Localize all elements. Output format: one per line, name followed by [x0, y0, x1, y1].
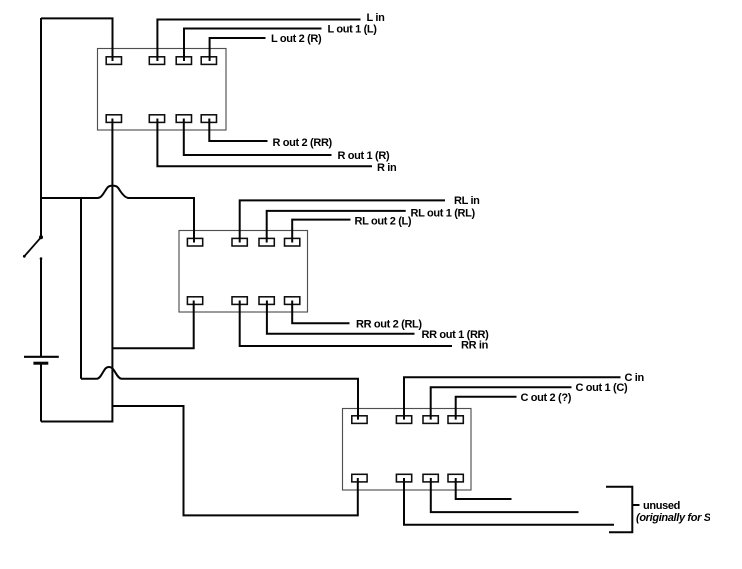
relay K2 pin 8 (bottom row) — [285, 297, 300, 305]
svg-text:L in: L in — [367, 12, 386, 24]
bracket tick to unused label — [632, 504, 639, 506]
svg-text:RL in: RL in — [454, 195, 480, 207]
relay K3 pin 3 (top row) — [423, 416, 438, 424]
relay K1 pin 1 (top row) — [106, 57, 121, 65]
relay K1 pin 7 (bottom row) — [176, 115, 191, 123]
relay K1 pin 6 (bottom row) — [149, 115, 164, 123]
wire: left rail down to switch — [40, 18, 42, 237]
svg-text:R in: R in — [377, 162, 397, 174]
wire: battery negative to bottom rail — [40, 364, 42, 422]
relay K3 pin 5 (bottom row) — [352, 474, 367, 482]
relay K1 pin 5 (bottom row) — [106, 115, 121, 123]
relay K1 pin 3 (top row) — [176, 57, 191, 65]
wire: C in from K3 pin2 — [404, 377, 621, 419]
relay K3 pin 8 (bottom row) — [448, 474, 463, 482]
svg-text:unused: unused — [643, 500, 680, 512]
wire: switch bottom terminal to battery positive — [40, 259, 42, 356]
wire: RL out 2 from K2 pin4 — [292, 220, 350, 243]
wire: K3 pin6 down to unused — [404, 478, 614, 525]
wire: branch at x=81 down to row3 feed — [80, 198, 82, 379]
relay K3 box body (bottom DPDT relay) — [343, 409, 472, 491]
wire: RR out 1 from K2 pin7 — [267, 301, 415, 334]
svg-text:C out 1 (C): C out 1 (C) — [576, 382, 628, 394]
svg-text:L out 2 (R): L out 2 (R) — [271, 33, 322, 45]
wire: RL out 1 from K2 pin3 — [267, 211, 406, 243]
relay K2 pin 1 (top row) — [187, 238, 202, 246]
relay K1 pin 4 (top row) — [201, 57, 216, 65]
bracket grouping unused relay K3 output wires — [606, 487, 632, 533]
relay K3 pin 4 (top row) — [448, 416, 463, 424]
wire: K2 pin5 down and left to battery vertical — [112, 301, 193, 349]
svg-text:RL out 1 (RL): RL out 1 (RL) — [411, 208, 476, 220]
relay K2 pin 6 (bottom row) — [232, 297, 247, 305]
switch SW1 blade (open) — [24, 237, 41, 256]
wire: C out 2 from K3 pin4 — [456, 397, 517, 420]
wire: R in from K1 pin6 — [157, 119, 372, 167]
relay K2 pin 7 (bottom row) — [259, 297, 274, 305]
relay K2 pin 5 (bottom row) — [187, 297, 202, 305]
relay K3 pin 7 (bottom row) — [423, 474, 438, 482]
wire: C out 1 from K3 pin3 — [431, 387, 572, 419]
svg-text:R out 2 (RR): R out 2 (RR) — [273, 137, 333, 149]
relay K3 pin 6 (bottom row) — [396, 474, 411, 482]
switch SW1 blade end contact — [23, 255, 26, 258]
relay K3 pin 2 (top row) — [396, 416, 411, 424]
relay K3 pin 1 (top row) — [352, 416, 367, 424]
svg-text:R out 1 (R): R out 1 (R) — [338, 150, 390, 162]
switch SW1 pivot terminal — [39, 235, 43, 239]
wire: L out 1 from K1 pin3 — [184, 29, 322, 62]
battery BT1 positive plate — [24, 356, 59, 358]
wire: R out 1 from K1 pin7 — [184, 119, 332, 156]
wire: K3 pin7 down to unused — [431, 478, 579, 512]
relay K2 box body (middle DPDT relay) — [179, 231, 308, 313]
relay K1 pin 2 (top row) — [149, 57, 164, 65]
wire: K1 pin5 down to battery negative rail — [41, 119, 112, 422]
wire: K1 pin1 top up to top rail — [41, 18, 113, 61]
wire: row3 feed to K3 pin1, with hop — [81, 367, 358, 420]
relay K1 pin 8 (bottom row) — [201, 115, 216, 123]
wire: RL in from K2 pin2 — [240, 200, 445, 242]
relay K2 pin 4 (top row) — [285, 238, 300, 246]
relay K1 box body (top DPDT relay) — [98, 49, 227, 131]
svg-text:RR out 2 (RL): RR out 2 (RL) — [356, 318, 422, 330]
switch SW1 bottom terminal — [40, 257, 43, 260]
svg-text:C in: C in — [625, 372, 645, 384]
wire: L in from K1 pin2 — [157, 20, 360, 62]
svg-text:RR in: RR in — [461, 339, 489, 351]
wire: row2 feed from rail to K2 pin1, with hop — [41, 186, 194, 243]
battery BT1 negative plate — [33, 362, 48, 365]
svg-text:L out 1 (L): L out 1 (L) — [328, 23, 378, 35]
relay K2 pin 3 (top row) — [259, 238, 274, 246]
relay K2 pin 2 (top row) — [232, 238, 247, 246]
svg-text:RL out 2 (L): RL out 2 (L) — [355, 215, 412, 227]
wire: RR out 2 from K2 pin8 — [292, 301, 349, 324]
wire: R out 2 from K1 pin8 — [209, 119, 267, 142]
wire: RR in from K2 pin6 — [240, 301, 452, 347]
svg-text:C out 2 (?): C out 2 (?) — [521, 392, 572, 404]
wire: K3 pin8 down to unused — [456, 478, 512, 499]
wire: L out 2 from K1 pin4 — [210, 38, 266, 61]
wire: branch at (112,406) right and down to K3 pin5 — [112, 406, 357, 515]
